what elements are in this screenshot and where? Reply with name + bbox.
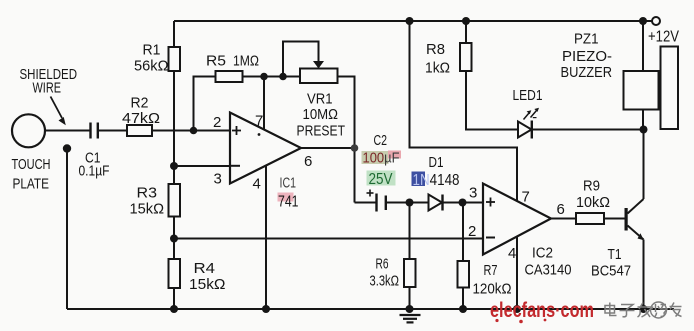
label SHIELDED WIRE — [20, 66, 78, 97]
wire LED1 to collector node — [532, 129, 644, 131]
op-amp U2 IC2 triangle — [483, 184, 551, 255]
wire C1 to R2 — [98, 130, 127, 132]
LED LED1 diode — [518, 122, 532, 138]
svg-text:C2: C2 — [374, 132, 388, 149]
resistor R7 — [458, 261, 470, 288]
wire IC2 pin4 down — [516, 236, 518, 309]
wire R5 right to VR1 — [243, 76, 301, 78]
wire R4-bottom segment — [173, 288, 175, 309]
op-amp IC2 minus mark — [486, 237, 495, 239]
wire IC2 pin7 from rail — [410, 21, 518, 201]
shielded wire pointer arrow — [51, 97, 63, 119]
terminal +12V circle — [652, 17, 660, 25]
transistor T1 collector — [628, 199, 644, 214]
wire R9 to T1 base — [604, 218, 625, 220]
svg-text:1kΩ: 1kΩ — [425, 60, 450, 77]
wire IC2 output to R9 — [551, 218, 576, 220]
pin numbers IC1 — [213, 113, 312, 193]
svg-text:3: 3 — [469, 185, 477, 202]
label R4 value — [189, 260, 226, 293]
op-amp IC1 stray dot — [258, 133, 261, 136]
diode D1 — [429, 195, 443, 211]
node R4 bottom — [170, 305, 178, 313]
resistor R2 — [127, 125, 152, 136]
node IC2 pin4 ground — [513, 305, 521, 313]
node pin4 IC1 bottom — [262, 305, 270, 313]
svg-text:R8: R8 — [426, 41, 445, 58]
label R3 value — [130, 185, 165, 218]
node rail pin7 branch — [406, 17, 414, 25]
svg-text:10MΩ: 10MΩ — [303, 106, 339, 123]
capacitor C2 — [377, 194, 386, 212]
node D1/R7 — [459, 199, 467, 207]
wire D1 to IC2 pin3 — [443, 202, 484, 204]
wire IC1 pin4 down — [265, 165, 267, 309]
node LED/collector — [640, 126, 648, 134]
svg-text:15kΩ: 15kΩ — [189, 276, 226, 293]
resistor R8 — [460, 43, 472, 71]
resistor R5 — [216, 71, 243, 82]
svg-text:PZ1: PZ1 — [574, 31, 599, 48]
label PZ1 PIEZO-BUZZER — [561, 31, 613, 82]
label IC2 CA3140 — [525, 245, 572, 279]
capacitor C1 — [91, 123, 98, 139]
svg-text:7: 7 — [522, 189, 530, 206]
node R1/R3 pin3 — [170, 162, 178, 170]
svg-text:1N4148: 1N4148 — [413, 172, 460, 189]
touch plate — [12, 114, 45, 147]
wire shield drop — [66, 149, 68, 309]
wire VR1 wiper loop — [283, 42, 319, 77]
svg-text:100µF: 100µF — [363, 150, 400, 167]
op-amp IC2 plus mark — [486, 198, 495, 207]
label C1 value — [79, 150, 110, 180]
label IC1 741 — [278, 193, 294, 202]
label R6 value — [370, 256, 400, 290]
transistor Q1 T1 base bar — [625, 208, 628, 231]
svg-text:R3: R3 — [137, 185, 158, 202]
svg-text:47kΩ: 47kΩ — [122, 110, 160, 127]
svg-text:TOUCH: TOUCH — [12, 156, 51, 173]
node R3/R4 — [170, 235, 178, 243]
wire R3-R4 segment — [173, 217, 175, 260]
wire IC1 pin7 — [263, 77, 265, 130]
svg-text:56kΩ: 56kΩ — [134, 58, 169, 75]
wire VR1 right feedback — [338, 77, 355, 203]
label R7 value — [473, 262, 512, 298]
svg-text:R2: R2 — [131, 95, 149, 112]
wire pin2 up to R5 — [194, 77, 216, 131]
char dian — [605, 306, 615, 314]
svg-text:IC2: IC2 — [532, 245, 553, 262]
ground — [400, 315, 421, 322]
op-amp IC1 minus mark — [231, 165, 240, 167]
char fa — [638, 306, 651, 308]
svg-text:CA3140: CA3140 — [525, 262, 572, 279]
svg-text:1MΩ: 1MΩ — [233, 53, 259, 70]
node emitter ground — [640, 305, 648, 313]
node junction dots — [63, 17, 648, 313]
char shao — [655, 304, 657, 312]
svg-text:R5: R5 — [206, 53, 226, 70]
wire R7 bottom — [462, 288, 464, 310]
node wiper/VR1 — [279, 73, 287, 81]
char you — [670, 306, 682, 308]
wire IC1 output — [301, 147, 355, 149]
op-amp U1 IC1 triangle — [230, 113, 301, 184]
wire touch plate to C1 — [45, 130, 90, 132]
svg-text:2: 2 — [213, 114, 221, 131]
svg-text:LED1: LED1 — [513, 87, 543, 104]
svg-text:BUZZER: BUZZER — [561, 64, 613, 81]
wire IC2 pin2 from R3/R4 node — [174, 238, 483, 240]
label R1 value — [134, 42, 169, 75]
wire bottom ground rail — [67, 308, 674, 310]
resistor R4 — [169, 259, 181, 288]
svg-text:7: 7 — [255, 113, 263, 130]
transistor T1 emitter — [628, 226, 644, 240]
wire +12V terminal lead — [643, 20, 652, 22]
node pin2/R5 — [190, 127, 198, 135]
node rail buzzer — [639, 17, 647, 25]
svg-text:2: 2 — [468, 223, 476, 240]
label R8 value — [425, 41, 450, 77]
svg-text:0.1µF: 0.1µF — [79, 163, 110, 180]
svg-text:R6: R6 — [376, 256, 389, 273]
svg-text:+12V: +12V — [648, 29, 679, 46]
svg-text:3: 3 — [214, 171, 222, 188]
wire R1 top drop — [173, 21, 175, 47]
potentiometer VR1 wiper arrow — [313, 61, 324, 69]
svg-text:VR1: VR1 — [307, 91, 333, 108]
svg-text:WIRE: WIRE — [33, 80, 62, 97]
svg-text:4: 4 — [253, 176, 261, 193]
wire IC1 pin3 — [174, 165, 230, 167]
label R2 value — [122, 95, 160, 128]
svg-text:PLATE: PLATE — [13, 176, 50, 193]
svg-text:PRESET: PRESET — [297, 123, 346, 140]
wire R7 drop — [462, 203, 464, 262]
label R5 value — [206, 53, 259, 70]
watermark chinese 电子发烧友 drawn as strokes — [605, 303, 682, 318]
LED LED1 emission arrows — [524, 108, 540, 120]
svg-text:D1: D1 — [429, 154, 444, 171]
wire R1-R3 segment — [173, 71, 175, 184]
piezo buzzer PZ1 element — [661, 47, 679, 130]
wire buzzer branch — [642, 21, 644, 130]
resistor R9 — [576, 213, 604, 224]
svg-text:10kΩ: 10kΩ — [576, 194, 610, 211]
svg-text:120kΩ: 120kΩ — [473, 281, 512, 298]
node C2/D1 — [406, 199, 414, 207]
svg-text:R9: R9 — [583, 178, 600, 195]
wire R8 top drop — [465, 21, 467, 43]
label VR1 value — [297, 91, 346, 140]
label T1 BC547 — [591, 246, 631, 280]
svg-text:15kΩ: 15kΩ — [130, 201, 165, 218]
node rail R8 — [462, 17, 470, 25]
wire C2 to D1 node — [386, 202, 428, 204]
svg-text:PIEZO-: PIEZO- — [562, 48, 612, 65]
piezo buzzer PZ1 body — [624, 71, 659, 110]
transistor T1 emitter arrowhead — [638, 233, 644, 240]
wire R6 bottom — [409, 287, 411, 309]
pin numbers IC2 — [468, 185, 565, 263]
wire R6 drop — [409, 203, 411, 260]
svg-text:T1: T1 — [608, 246, 622, 263]
svg-text:741: 741 — [278, 194, 299, 211]
node R7 ground — [459, 305, 467, 313]
svg-text:BC547: BC547 — [591, 263, 631, 280]
watermark circle around shao — [651, 302, 667, 318]
svg-text:4: 4 — [508, 245, 516, 262]
svg-text:IC1: IC1 — [280, 175, 297, 192]
char zi — [621, 305, 633, 316]
wire T1 emitter vertical — [643, 240, 645, 310]
wire to C2 — [355, 202, 377, 204]
svg-text:R4: R4 — [194, 260, 216, 277]
svg-text:6: 6 — [557, 201, 565, 218]
label TOUCH PLATE — [12, 156, 51, 193]
node shield top — [63, 144, 71, 152]
wire T1 collector vertical — [643, 130, 645, 200]
op-amp IC1 plus mark — [232, 126, 241, 135]
resistor R6 — [404, 259, 416, 287]
svg-text:elecfans·com: elecfans·com — [490, 299, 594, 322]
wire R2 to IC1 pin2 — [152, 130, 230, 132]
svg-text:R1: R1 — [143, 42, 161, 59]
capacitor C2 plus mark — [367, 190, 374, 197]
potentiometer VR1 body — [300, 69, 338, 84]
svg-text:6: 6 — [304, 153, 312, 170]
svg-text:25V: 25V — [369, 171, 394, 188]
svg-text:3.3kΩ: 3.3kΩ — [370, 273, 400, 290]
resistor R1 — [169, 47, 181, 71]
wire top +12V rail — [174, 20, 652, 22]
label R9 value — [576, 178, 610, 212]
resistor R3 — [169, 184, 181, 217]
svg-text:R7: R7 — [484, 262, 498, 279]
node IC1 output — [351, 144, 359, 152]
wire R8 bottom to LED1 — [466, 71, 518, 130]
node R5/pin7 — [260, 73, 268, 81]
node R6 ground — [406, 305, 414, 313]
